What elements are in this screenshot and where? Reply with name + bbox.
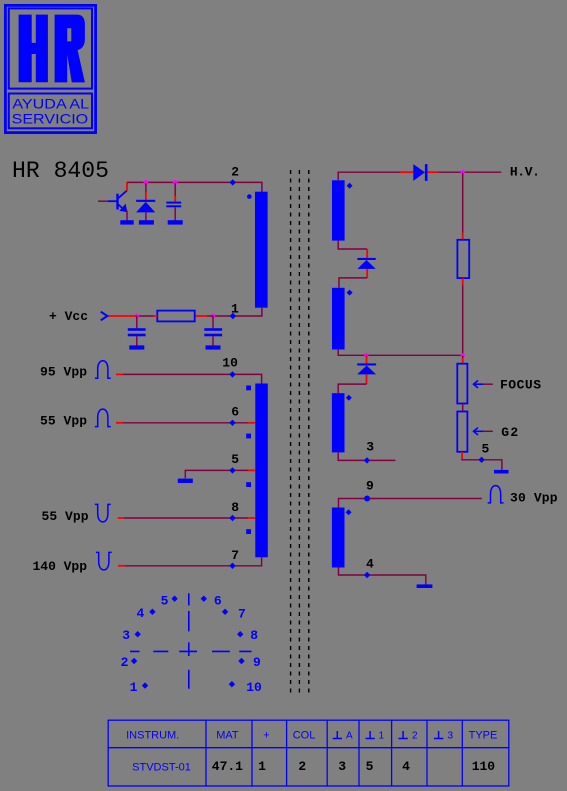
junction HV xyxy=(461,170,465,174)
svg-text:30 Vpp: 30 Vpp xyxy=(510,491,558,506)
wire D3 top red xyxy=(366,355,368,363)
footprint pin 5 dot xyxy=(171,596,177,602)
junction D1 xyxy=(144,180,149,185)
svg-text:140 Vpp: 140 Vpp xyxy=(33,559,88,574)
Vcc arrow xyxy=(101,312,108,321)
footprint pin 10 dot xyxy=(229,681,235,687)
svg-text:110: 110 xyxy=(472,759,496,774)
svg-text:9: 9 xyxy=(253,655,261,670)
svg-text:4: 4 xyxy=(137,606,145,621)
wire S2 top to HV bus xyxy=(338,172,400,180)
capacitor C2 xyxy=(136,316,138,328)
wire focus divider mid xyxy=(462,356,464,358)
transistor Q1 xyxy=(108,190,127,212)
footprint pin 3 dot xyxy=(135,631,141,637)
secondary winding S5 xyxy=(332,508,345,568)
phase dot S1d xyxy=(246,529,251,534)
phase dot S1a xyxy=(246,386,251,391)
svg-text:8: 8 xyxy=(231,500,239,515)
footprint axis horizontal xyxy=(130,650,252,652)
pulse symbol positive pin10 xyxy=(95,361,111,379)
ground pin 5 left xyxy=(178,479,193,483)
svg-text:STVDST-01: STVDST-01 xyxy=(132,762,191,774)
logo text box xyxy=(9,94,92,129)
svg-text:7: 7 xyxy=(238,607,246,622)
junction focus divider xyxy=(461,353,465,357)
svg-text:5: 5 xyxy=(231,452,239,467)
wire D3 to S4 xyxy=(366,374,368,384)
pin 9 dot xyxy=(364,496,370,502)
wire Vcc in red xyxy=(108,315,137,317)
wire HV diode cathode red xyxy=(428,171,439,173)
svg-text:5: 5 xyxy=(161,594,169,609)
footprint axis vertical xyxy=(188,593,190,689)
capacitor C1 xyxy=(166,202,181,204)
wire R1 right red xyxy=(195,315,207,317)
svg-text:INSTRUM.: INSTRUM. xyxy=(126,729,179,741)
wire HV diode anode red xyxy=(400,171,413,173)
core dashed line 2 xyxy=(298,170,300,696)
wire pin 3 xyxy=(338,452,395,460)
svg-text:47.1: 47.1 xyxy=(212,759,243,774)
svg-text:FOCUS: FOCUS xyxy=(500,378,541,393)
logo letter R xyxy=(55,15,85,83)
wire pin 6 xyxy=(116,422,123,424)
secondary winding S3 xyxy=(332,288,345,350)
table column lines xyxy=(206,720,462,787)
footprint pin 2 dot xyxy=(131,658,137,664)
svg-text:MAT: MAT xyxy=(216,729,239,741)
core dashed line 1 xyxy=(290,170,292,696)
wire top bus xyxy=(127,182,262,192)
logo letter H xyxy=(19,15,48,83)
pulse symbol positive 30 Vpp xyxy=(488,486,504,503)
wire S3 bottom bus xyxy=(338,350,463,356)
phase dot S3 xyxy=(347,290,353,296)
logo HR box xyxy=(9,8,92,88)
junction C1 xyxy=(173,180,178,185)
svg-text:10: 10 xyxy=(222,356,238,371)
svg-text:+ Vcc: + Vcc xyxy=(49,309,88,324)
secondary winding S2 top xyxy=(332,180,345,240)
svg-text:2: 2 xyxy=(298,759,306,774)
resistor R3 focus xyxy=(457,364,467,404)
pin 10 dot xyxy=(229,371,235,377)
junction D3 xyxy=(364,353,368,357)
wire pin 5 right xyxy=(462,458,502,470)
diode D3 xyxy=(357,363,376,365)
pulse symbol positive pin6 xyxy=(95,409,111,427)
table header separator xyxy=(108,747,510,749)
svg-text:AYUDA AL: AYUDA AL xyxy=(12,96,89,112)
pin 5 right dot xyxy=(478,457,484,463)
svg-text:7: 7 xyxy=(231,548,239,563)
svg-text:10: 10 xyxy=(246,680,262,695)
wire pin 7 xyxy=(118,565,125,567)
ground C2 xyxy=(129,345,144,349)
svg-text:3: 3 xyxy=(338,759,346,774)
svg-text:6: 6 xyxy=(231,404,239,419)
resistor R4 G2 xyxy=(457,412,467,452)
wire D1 bottom xyxy=(145,212,147,220)
ground Q1 xyxy=(120,220,133,224)
logo outer frame xyxy=(5,5,95,132)
svg-text:95 Vpp: 95 Vpp xyxy=(40,365,87,380)
svg-text:SERVICIO: SERVICIO xyxy=(12,110,89,126)
svg-text:HR 8405: HR 8405 xyxy=(12,158,109,184)
diode D1 damper xyxy=(136,200,155,202)
wire pin 10 xyxy=(116,373,123,375)
table header ground 2 xyxy=(399,731,408,739)
wire C1 bottom xyxy=(174,207,176,220)
wire R3 to R4 xyxy=(462,404,464,412)
footprint pin 1 dot xyxy=(142,682,148,688)
secondary winding S1 xyxy=(255,384,267,558)
wire pin1 xyxy=(213,308,262,316)
svg-text:6: 6 xyxy=(214,594,222,609)
svg-text:4: 4 xyxy=(402,759,410,774)
table header ground 1 xyxy=(366,731,375,739)
ground C3 xyxy=(206,345,221,349)
phase dot S4 xyxy=(346,395,352,401)
G2 arrow xyxy=(474,428,484,435)
primary winding P1 xyxy=(255,192,268,308)
svg-text:2: 2 xyxy=(231,164,239,179)
wire R4 bottom red xyxy=(461,452,463,459)
footprint pin 8 dot xyxy=(237,631,243,637)
secondary winding S4 xyxy=(332,393,345,452)
svg-text:1: 1 xyxy=(130,680,138,695)
phase dot S5 xyxy=(346,509,352,515)
svg-text:1: 1 xyxy=(379,730,385,741)
wire R2 bottom xyxy=(462,278,464,285)
ground C1 xyxy=(168,220,183,224)
wire to HV label xyxy=(438,171,501,173)
wire D1 top xyxy=(145,183,147,192)
svg-text:G2: G2 xyxy=(501,425,518,440)
junction C2 xyxy=(135,314,139,318)
svg-text:8: 8 xyxy=(250,628,258,643)
footprint pin 9 dot xyxy=(238,658,244,664)
wire pin 8 xyxy=(118,517,124,519)
footprint pin 6 dot xyxy=(201,596,207,602)
svg-text:3: 3 xyxy=(366,439,374,454)
phase dot P1 xyxy=(247,194,252,199)
pulse symbol negative pin7 xyxy=(96,552,112,570)
pin 1 dot xyxy=(230,313,236,319)
phase dot S2 xyxy=(347,183,353,189)
svg-text:2: 2 xyxy=(121,655,129,670)
junction C3 xyxy=(211,314,215,318)
wire pin 9 xyxy=(339,499,482,508)
table header ground A xyxy=(333,731,342,739)
pin 6 dot xyxy=(229,420,235,426)
pin 3 dot xyxy=(364,457,370,463)
focus arrow wire xyxy=(483,383,493,385)
svg-text:2: 2 xyxy=(412,730,418,741)
ground D1 xyxy=(139,220,154,224)
wire HV divider top xyxy=(462,173,464,233)
svg-text:1: 1 xyxy=(258,759,266,774)
diode D2 xyxy=(357,258,375,260)
G2 arrow wire xyxy=(483,430,493,432)
phase dot S1c xyxy=(246,482,251,487)
table header ground 3 xyxy=(434,731,443,739)
wire C1 top xyxy=(174,183,176,196)
pulse symbol negative pin8 xyxy=(95,504,111,522)
pin 7 dot xyxy=(229,563,235,569)
svg-text:A: A xyxy=(346,730,353,741)
resistor R2 HV bleeder xyxy=(457,240,469,278)
wire S2 bottom to D2 xyxy=(338,241,367,249)
svg-text:9: 9 xyxy=(366,478,374,493)
focus arrow xyxy=(474,381,484,388)
wire R1 left xyxy=(137,315,154,317)
svg-text:+: + xyxy=(263,729,269,741)
svg-text:4: 4 xyxy=(366,557,374,572)
svg-text:5: 5 xyxy=(366,759,374,774)
wire base Q1 xyxy=(98,200,109,202)
svg-text:TYPE: TYPE xyxy=(469,729,498,741)
pin 5 dot xyxy=(229,467,235,473)
footprint pin 7 dot xyxy=(222,609,228,615)
svg-text:5: 5 xyxy=(482,442,490,457)
svg-text:3: 3 xyxy=(448,730,454,741)
pin 2 dot xyxy=(230,179,236,185)
resistor R1 xyxy=(157,311,194,322)
diode D4 HV xyxy=(413,164,425,181)
svg-text:55 Vpp: 55 Vpp xyxy=(40,413,87,428)
wire D2 to S3 xyxy=(366,269,368,278)
pin 8 dot xyxy=(229,515,235,521)
svg-text:55 Vpp: 55 Vpp xyxy=(42,509,89,524)
wire emitter xyxy=(126,211,128,221)
phase dot S1b xyxy=(246,434,251,439)
ground pin 5 right xyxy=(494,470,509,474)
svg-text:H.V.: H.V. xyxy=(510,164,540,179)
svg-text:COL: COL xyxy=(293,729,316,741)
table frame xyxy=(108,720,509,786)
pin 4 dot xyxy=(364,572,370,578)
ground pin 4 xyxy=(417,584,433,588)
svg-text:3: 3 xyxy=(122,628,130,643)
wire pin 5 left xyxy=(185,470,248,478)
wire pin 4 xyxy=(339,568,426,585)
wire collector red xyxy=(126,182,128,190)
core dashed line 3 xyxy=(308,170,310,696)
capacitor C3 xyxy=(212,316,214,328)
footprint pin 4 dot xyxy=(149,609,155,615)
